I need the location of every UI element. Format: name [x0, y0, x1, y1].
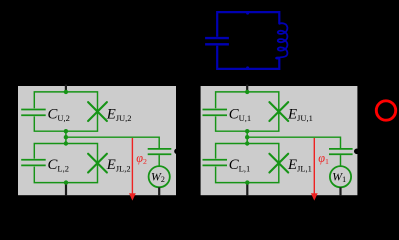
- wire to W capacitor (qubit 1): [247, 137, 340, 148]
- node dot at lower loop top (qubit 2): [64, 141, 68, 145]
- qubit panel 1 background: [201, 86, 358, 195]
- node dot at lower loop bottom (qubit 2): [64, 180, 68, 184]
- resonator loop wire: [217, 12, 279, 69]
- Josephson junction E_JL,1 (X): [269, 154, 288, 173]
- node dot top (qubit 1): [245, 90, 249, 94]
- coupling node dot (qubit 1): [354, 149, 360, 155]
- wire capacitor to W_2: [158, 155, 160, 166]
- resonator inductor coil: [276, 23, 287, 58]
- upper loop wire (qubit 2): [34, 92, 97, 131]
- Josephson junction E_JU,2 (X): [88, 102, 107, 121]
- top lead stub (qubit 2): [65, 85, 67, 93]
- capacitor C_U,1 plates: [203, 109, 228, 111]
- node dot at lower loop bottom (qubit 1): [245, 180, 249, 184]
- coupling node dot (qubit 2): [174, 149, 180, 155]
- capacitor C_L,2 plates: [21, 159, 46, 161]
- ground stub below W_1: [339, 187, 341, 195]
- node dot at upper loop bottom (qubit 2): [64, 129, 68, 133]
- upper loop wire (qubit 1): [216, 92, 279, 131]
- flux arrow phi_1: [313, 138, 315, 194]
- flux arrow phi_2: [131, 138, 133, 194]
- capacitor C_L,1 plates: [203, 159, 228, 161]
- bottom lead stub (qubit 1): [246, 183, 248, 196]
- lower loop wire (qubit 1): [216, 144, 279, 183]
- source W_2 circle: [149, 166, 170, 187]
- wire capacitor to W_1: [340, 155, 342, 166]
- red highlight circle: [376, 101, 395, 120]
- Josephson junction E_JU,1 (X): [269, 102, 288, 121]
- bottom lead stub (qubit 2): [65, 183, 67, 196]
- coupling capacitor plates near W_2: [148, 148, 172, 150]
- ground stub below W_2: [158, 187, 160, 195]
- resonator node tick top: [246, 12, 249, 15]
- source W_1 circle: [330, 166, 351, 187]
- wire connecting loops (qubit 1): [246, 131, 248, 143]
- node dot at upper loop bottom (qubit 1): [245, 129, 249, 133]
- node dot at lower loop top (qubit 1): [245, 141, 249, 145]
- resonator node tick bottom: [246, 66, 249, 69]
- top lead stub (qubit 1): [246, 85, 248, 93]
- coupling capacitor plates near W_1: [329, 148, 353, 150]
- capacitor C_U,2 plates: [21, 109, 46, 111]
- wire connecting loops (qubit 2): [65, 131, 67, 143]
- node dot middle (qubit 2): [64, 135, 68, 139]
- Josephson junction E_JL,2 (X): [88, 154, 107, 173]
- wire to W capacitor (qubit 2): [66, 137, 159, 148]
- lower loop wire (qubit 2): [34, 144, 97, 183]
- node dot top (qubit 2): [64, 90, 68, 94]
- qubit panel 2 background: [18, 86, 176, 195]
- node dot middle (qubit 1): [245, 135, 249, 139]
- resonator capacitor plates: [205, 37, 229, 39]
